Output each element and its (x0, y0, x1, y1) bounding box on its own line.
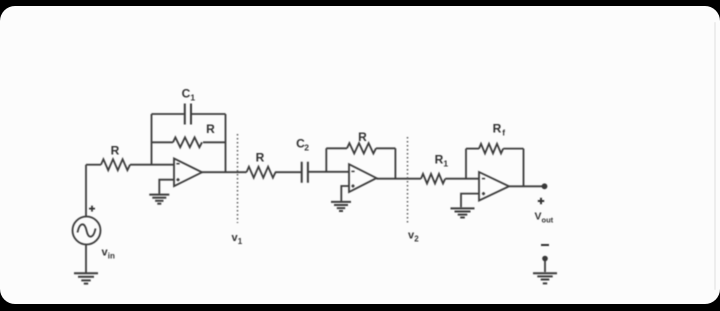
svg-text:1: 1 (190, 93, 195, 103)
wire U2 noninverting to ground (341, 186, 349, 201)
node output dot (542, 183, 548, 189)
wire feedback top left U2 (326, 147, 347, 149)
capacitor C2 (302, 162, 308, 183)
wire R1 to op-amp U3 (445, 178, 479, 180)
op-amp U3 (479, 172, 509, 201)
wire R loop left (152, 141, 174, 143)
wire input to R (86, 164, 101, 166)
capacitor C1 (185, 104, 191, 125)
op-amp U1 (174, 158, 202, 186)
svg-text:R: R (493, 122, 502, 136)
svg-text:R: R (206, 122, 215, 136)
wire U3 output (509, 185, 545, 187)
svg-text:R: R (435, 153, 444, 167)
wire feedback tap left U2 (325, 148, 327, 172)
ground (U1) (149, 195, 169, 204)
node V1 dashed line (237, 134, 239, 223)
wire feedback right U1 (225, 114, 227, 172)
wire feedback tap left U3 (465, 149, 467, 179)
resistor R (feedback stage 2) (347, 143, 376, 153)
wire feedback top right U3 (503, 148, 523, 150)
svg-text:2: 2 (304, 143, 309, 153)
svg-text:in: in (108, 251, 115, 260)
wire U1 output to stage 2 (202, 171, 247, 173)
op-amp U1 plus mark (176, 178, 179, 181)
op-amp U3 plus mark (482, 192, 485, 195)
ground (output) (533, 273, 557, 283)
resistor Rf (479, 144, 503, 154)
wire R to op-amp U1 (130, 164, 174, 166)
wire C2 to op-amp U2 (309, 171, 349, 173)
svg-text:R: R (111, 144, 120, 158)
op-amp U2 (349, 164, 377, 192)
node output minus terminal dot (542, 256, 548, 262)
svg-text:1: 1 (443, 159, 448, 169)
resistor R1 (421, 174, 445, 184)
op-amp U2 plus mark (351, 184, 354, 187)
svg-text:R: R (256, 151, 265, 165)
voltage source VS (73, 217, 101, 245)
ground (U2) (331, 202, 351, 211)
svg-text:R: R (358, 130, 367, 144)
wire C1 loop top (152, 113, 226, 115)
resistor R (input stage 2) (247, 167, 276, 178)
op-amp U3 minus mark (482, 178, 485, 180)
node V2 dashed line (407, 137, 409, 224)
wire output terminal stub (544, 259, 546, 273)
svg-text:f: f (502, 128, 505, 138)
resistor R (input stage 1) (101, 159, 130, 170)
plus sign output (538, 198, 544, 204)
svg-text:C: C (182, 87, 191, 101)
wire R loop right (203, 141, 226, 143)
ground (U3) (451, 208, 475, 217)
wire feedback top right U2 (376, 147, 395, 149)
wire R to C2 (275, 171, 301, 173)
wire feedback tap left U1 (151, 114, 153, 165)
wire feedback top left U3 (466, 148, 479, 150)
wire feedback right U3 (523, 149, 525, 187)
svg-text:1: 1 (238, 237, 243, 246)
wire source bottom (85, 245, 87, 273)
svg-text:V: V (534, 211, 541, 223)
ground (source) (74, 273, 98, 283)
svg-text:out: out (542, 215, 554, 224)
wire U2 output to stage 3 (377, 178, 422, 180)
wire U3 noninverting to ground (461, 194, 479, 208)
resistor R (feedback stage 1) (173, 137, 202, 147)
wire source top (85, 165, 87, 217)
wire U1 noninverting to ground (159, 180, 174, 194)
svg-text:2: 2 (414, 234, 419, 243)
wire feedback right U2 (394, 148, 396, 179)
op-amp U1 minus mark (176, 163, 179, 165)
minus sign output (541, 244, 549, 246)
plus sign source (89, 206, 95, 212)
op-amp U2 minus mark (351, 170, 354, 172)
